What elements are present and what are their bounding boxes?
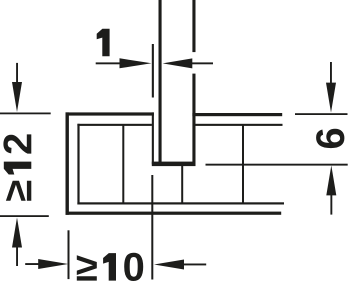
inner line: bottom xyxy=(77,202,284,204)
dim-6 top arrowhead xyxy=(326,83,336,113)
dim-12 bottom arrow tail xyxy=(16,246,18,266)
dim-1 right arrow tail xyxy=(191,62,213,64)
vertical panel right edge upper segment xyxy=(192,0,195,52)
bottom panel outer left edge xyxy=(66,112,69,214)
dim-1 right arrowhead xyxy=(163,58,193,68)
dim-12 bottom arrowhead xyxy=(12,218,22,248)
dim-12 top arrowhead xyxy=(12,82,22,112)
internal divider line 1 xyxy=(122,125,124,204)
bottom panel outer top edge, right of groove xyxy=(192,113,282,116)
dim-12 bottom extension line xyxy=(0,215,49,217)
bottom panel outer top edge, left of groove xyxy=(66,112,154,115)
dim-1 left arrowhead xyxy=(120,58,152,68)
dim-1 label xyxy=(97,29,110,57)
dim-6 top arrow tail xyxy=(330,62,332,83)
inner line: top, left of groove xyxy=(77,124,151,126)
dim-10 left arrowhead xyxy=(38,259,68,269)
inner line: left xyxy=(77,124,79,205)
dim-6 bottom arrowhead xyxy=(326,165,336,195)
groove bottom xyxy=(152,162,196,167)
dim-12 top arrow tail xyxy=(16,63,18,83)
vertical panel left edge xyxy=(159,0,162,165)
groove left wall xyxy=(152,112,154,164)
dim-12 top extension line xyxy=(0,113,51,115)
dim-12 label xyxy=(3,134,31,200)
dim-1 left arrow tail xyxy=(96,62,122,64)
dim-1 extension line xyxy=(152,44,154,98)
dim-10 right arrow tail xyxy=(183,264,206,266)
internal divider line 2 xyxy=(242,125,244,204)
dim-6 top extension line xyxy=(295,113,348,115)
dim-6 bottom extension line xyxy=(206,164,348,166)
vertical panel right edge lower segment xyxy=(192,74,195,165)
dim-10 label xyxy=(77,253,143,281)
internal divider line below groove xyxy=(181,165,183,204)
inner line: top, right of groove xyxy=(194,124,283,126)
dim-6 label xyxy=(316,129,344,148)
dim-10 left extension line xyxy=(68,230,70,279)
dim-10 right extension line xyxy=(151,175,153,280)
dim-6 bottom arrow tail xyxy=(330,195,332,215)
dim-10 left arrow tail xyxy=(25,263,39,265)
bottom panel outer bottom edge xyxy=(66,212,282,215)
dim-10 right arrowhead xyxy=(154,260,184,270)
